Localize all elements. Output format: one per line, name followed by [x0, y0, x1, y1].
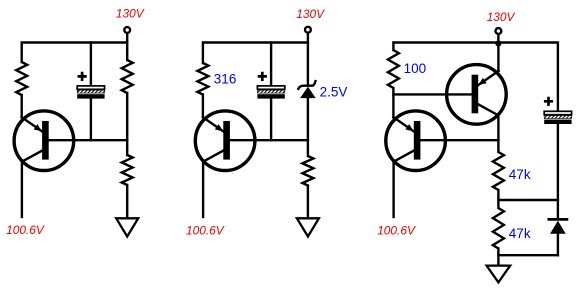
svg-text:100.6V: 100.6V — [186, 224, 225, 238]
svg-text:100: 100 — [404, 61, 427, 76]
svg-text:2.5V: 2.5V — [320, 84, 348, 99]
svg-text:47k: 47k — [509, 167, 531, 182]
svg-text:47k: 47k — [509, 226, 531, 241]
svg-text:130V: 130V — [296, 7, 325, 21]
svg-text:130V: 130V — [116, 7, 145, 21]
svg-text:100.6V: 100.6V — [6, 223, 45, 237]
svg-text:316: 316 — [214, 71, 237, 86]
svg-text:130V: 130V — [487, 10, 516, 24]
svg-text:100.6V: 100.6V — [377, 224, 416, 238]
